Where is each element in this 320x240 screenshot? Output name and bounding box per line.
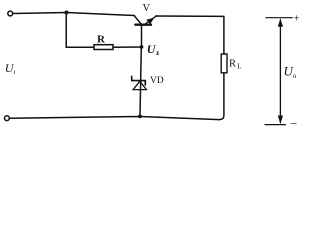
svg-text:o: o <box>293 72 297 80</box>
svg-text:V: V <box>143 3 151 14</box>
svg-text:+: + <box>294 13 300 25</box>
svg-text:R: R <box>229 59 236 70</box>
svg-text:–: – <box>290 115 298 129</box>
svg-text:i: i <box>14 69 16 76</box>
svg-text:VD: VD <box>150 76 164 86</box>
svg-text:R: R <box>97 34 106 46</box>
svg-text:L: L <box>237 63 241 71</box>
svg-text:z: z <box>156 48 160 57</box>
